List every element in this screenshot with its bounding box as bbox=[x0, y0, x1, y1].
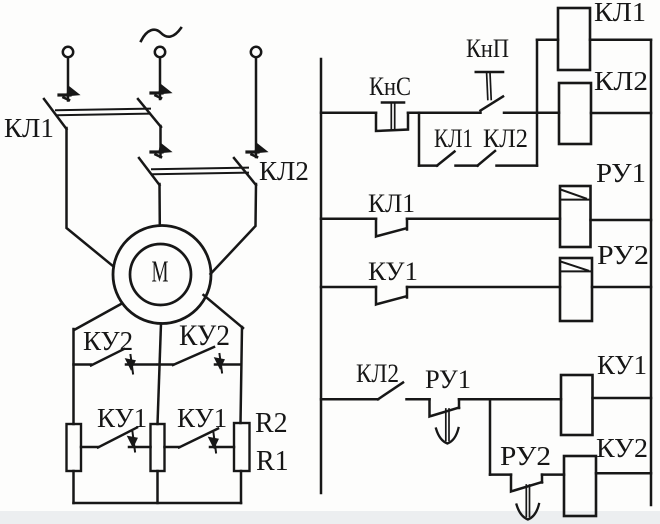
contact KU1 left: blade bbox=[98, 428, 137, 448]
wire: KL1 left blade to motor bbox=[67, 128, 114, 267]
wire: KL1 coil branch left bbox=[537, 39, 558, 42]
svg-text:КЛ1: КЛ1 bbox=[594, 0, 646, 27]
contact KU2 right: wire bbox=[158, 363, 173, 366]
svg-text:КУ1: КУ1 bbox=[177, 403, 227, 433]
relay RU1 box bbox=[560, 186, 591, 247]
wire: motor lower-right to right rotor branch bbox=[204, 295, 244, 328]
contact RU2 (time-delay): body bbox=[511, 475, 542, 492]
contactor KL1 bar (double line) bbox=[56, 109, 150, 116]
wire: seal-in branch left drop bbox=[418, 113, 421, 166]
contactor KL2 bar (double line) bbox=[152, 168, 248, 175]
AC source tilde bbox=[141, 28, 181, 41]
wire rung4 right bbox=[459, 398, 561, 401]
contactor KL2 right blade bbox=[234, 158, 256, 185]
wire: motor lower-left to left rotor branch bbox=[74, 304, 121, 330]
wire: left branch to bottom bus bbox=[72, 471, 75, 503]
wire: KL2 left blade to motor top bbox=[158, 184, 161, 225]
terminal L2 bbox=[155, 47, 165, 57]
contact KU1 left: arrow bbox=[129, 432, 137, 452]
wire: KU1 coil to right rail bbox=[593, 397, 652, 400]
svg-text:КЛ2: КЛ2 bbox=[356, 359, 399, 388]
wire rung3 right bbox=[407, 286, 560, 289]
svg-text:R2: R2 bbox=[255, 408, 288, 439]
wire rung1 right bbox=[504, 111, 559, 114]
wire: vertical node x537 bbox=[536, 40, 539, 166]
wire: KL2 right blade to motor right bbox=[211, 184, 257, 274]
contact KU2 left: blade bbox=[91, 349, 124, 366]
contact KU2 right: wire out bbox=[215, 363, 241, 366]
wire: middle branch to bottom bus bbox=[156, 471, 159, 503]
right control rail bbox=[650, 40, 653, 505]
contact RU2 arrow (delay) bbox=[517, 485, 540, 520]
motor M inner circle bbox=[130, 244, 191, 305]
resistor right box (R2/R1) bbox=[234, 423, 250, 471]
wire L2 drop bbox=[159, 58, 162, 100]
relay RU2 diagonal bbox=[561, 262, 589, 271]
wire rung5 left bbox=[490, 473, 511, 476]
svg-text:КУ2: КУ2 bbox=[83, 326, 133, 356]
terminal L1 bbox=[63, 47, 73, 57]
contactor KL2 left blade bbox=[139, 158, 160, 185]
coil KU1 box bbox=[561, 375, 593, 435]
wire rung4 mid bbox=[407, 398, 430, 401]
wire: RU2 to right rail bbox=[592, 286, 651, 289]
svg-text:КЛ1: КЛ1 bbox=[4, 113, 54, 143]
svg-text:КнП: КнП bbox=[466, 34, 509, 63]
motor M outer circle bbox=[113, 226, 211, 324]
svg-text:КЛ1: КЛ1 bbox=[368, 189, 415, 218]
contact KU1 (NO, rung3) bbox=[376, 287, 407, 305]
contact KU1 left: wire out bbox=[129, 446, 151, 449]
svg-text:КЛ2: КЛ2 bbox=[259, 156, 309, 186]
wire rung4 left bbox=[321, 398, 378, 401]
svg-text:РУ1: РУ1 bbox=[596, 158, 646, 188]
svg-text:КУ1: КУ1 bbox=[97, 403, 147, 433]
contact KU1 right: blade bbox=[179, 429, 218, 448]
svg-text:R1: R1 bbox=[256, 446, 289, 477]
wire: right branch to bottom bus bbox=[240, 471, 243, 503]
relay RU2 box bbox=[560, 258, 592, 321]
contact RU1 (time-delay): body bbox=[430, 399, 460, 416]
contact KU2 left: wire bbox=[74, 363, 92, 366]
wire: right rotor branch bbox=[241, 327, 243, 423]
wire L1 drop bbox=[67, 58, 70, 101]
svg-text:КЛ2: КЛ2 bbox=[483, 124, 528, 153]
svg-text:КУ1: КУ1 bbox=[368, 257, 418, 286]
coil KL2 box bbox=[559, 83, 591, 144]
wire rung5 right bbox=[542, 473, 564, 476]
contact arrow KL2 right bbox=[247, 144, 267, 157]
resistor left box bbox=[67, 424, 82, 471]
wire: KL1 right blade down to KL2 bbox=[159, 126, 162, 157]
left control rail bbox=[320, 59, 323, 493]
svg-text:КУ1: КУ1 bbox=[597, 350, 647, 380]
contact KU1 right: arrow bbox=[210, 433, 218, 453]
contact arrow KL2 left bbox=[151, 144, 171, 157]
faint scan shading band at bottom bbox=[0, 511, 660, 524]
svg-text:КЛ2: КЛ2 bbox=[594, 66, 648, 96]
coil KU2 box bbox=[564, 456, 596, 516]
contact KL1 aux (seal-in): blade bbox=[437, 152, 455, 166]
svg-text:М: М bbox=[152, 254, 169, 289]
svg-text:КУ2: КУ2 bbox=[179, 319, 230, 352]
wire: left rotor branch bbox=[72, 329, 75, 424]
coil KL1 box bbox=[558, 8, 590, 70]
wire: junction drop x490 bbox=[489, 399, 492, 474]
wire between aux contacts bbox=[456, 164, 478, 167]
contact KU1 right: wire bbox=[165, 446, 180, 449]
wire: seal-in branch bbox=[419, 164, 437, 167]
contactor KL1 right blade bbox=[138, 99, 161, 127]
terminal L3 bbox=[251, 47, 261, 57]
resistor middle box bbox=[151, 424, 165, 471]
svg-text:КнС: КнС bbox=[369, 72, 411, 101]
contact KL1 (NO, rung2) bbox=[376, 219, 407, 237]
contact RU1 arrow (delay) bbox=[436, 409, 459, 444]
svg-text:КУ2: КУ2 bbox=[596, 433, 648, 463]
wire L3 drop bbox=[255, 58, 258, 158]
contact arrow KL1 left bbox=[59, 87, 79, 100]
svg-text:КЛ1: КЛ1 bbox=[434, 124, 473, 153]
contact arrow KL1 right bbox=[151, 85, 171, 98]
push-button KnS (NC stop) bbox=[376, 103, 408, 132]
bottom bus wire bbox=[74, 502, 242, 505]
wire: KU2 coil to right rail bbox=[596, 472, 651, 475]
svg-text:РУ1: РУ1 bbox=[425, 365, 471, 394]
contact KU2 left: arrow bbox=[127, 355, 135, 374]
contactor KL1 left blade bbox=[44, 99, 67, 129]
wire rung3 left bbox=[321, 286, 376, 289]
contact KU2 right: arrow bbox=[216, 354, 224, 373]
wire rung2 right bbox=[407, 218, 560, 221]
relay RU1 diagonal bbox=[561, 190, 587, 199]
wire rung1 left bbox=[321, 111, 376, 114]
wire: motor bottom to middle rotor branch bbox=[158, 324, 162, 425]
wire: KL1 coil to right rail bbox=[590, 39, 651, 42]
wire: seal-in branch right bbox=[497, 164, 538, 167]
wire: RU1 to right rail bbox=[591, 219, 652, 222]
contact KU2 right: blade bbox=[173, 347, 214, 365]
contact KL2 aux (seal-in): blade bbox=[478, 151, 496, 166]
push-button KnP (NO start) bbox=[476, 72, 503, 111]
contact KL2 (NO, rung4): blade bbox=[378, 383, 403, 400]
contact KU1 right: wire out bbox=[210, 446, 234, 449]
contact KU2 left: wire out bbox=[126, 363, 156, 366]
wire rung2 left bbox=[321, 218, 376, 221]
svg-text:РУ2: РУ2 bbox=[500, 441, 551, 471]
wire: KL2 coil to right rail bbox=[591, 112, 651, 115]
contact KU1 left: wire bbox=[81, 446, 98, 449]
svg-text:РУ2: РУ2 bbox=[597, 240, 649, 270]
wire rung1 mid bbox=[408, 111, 481, 114]
